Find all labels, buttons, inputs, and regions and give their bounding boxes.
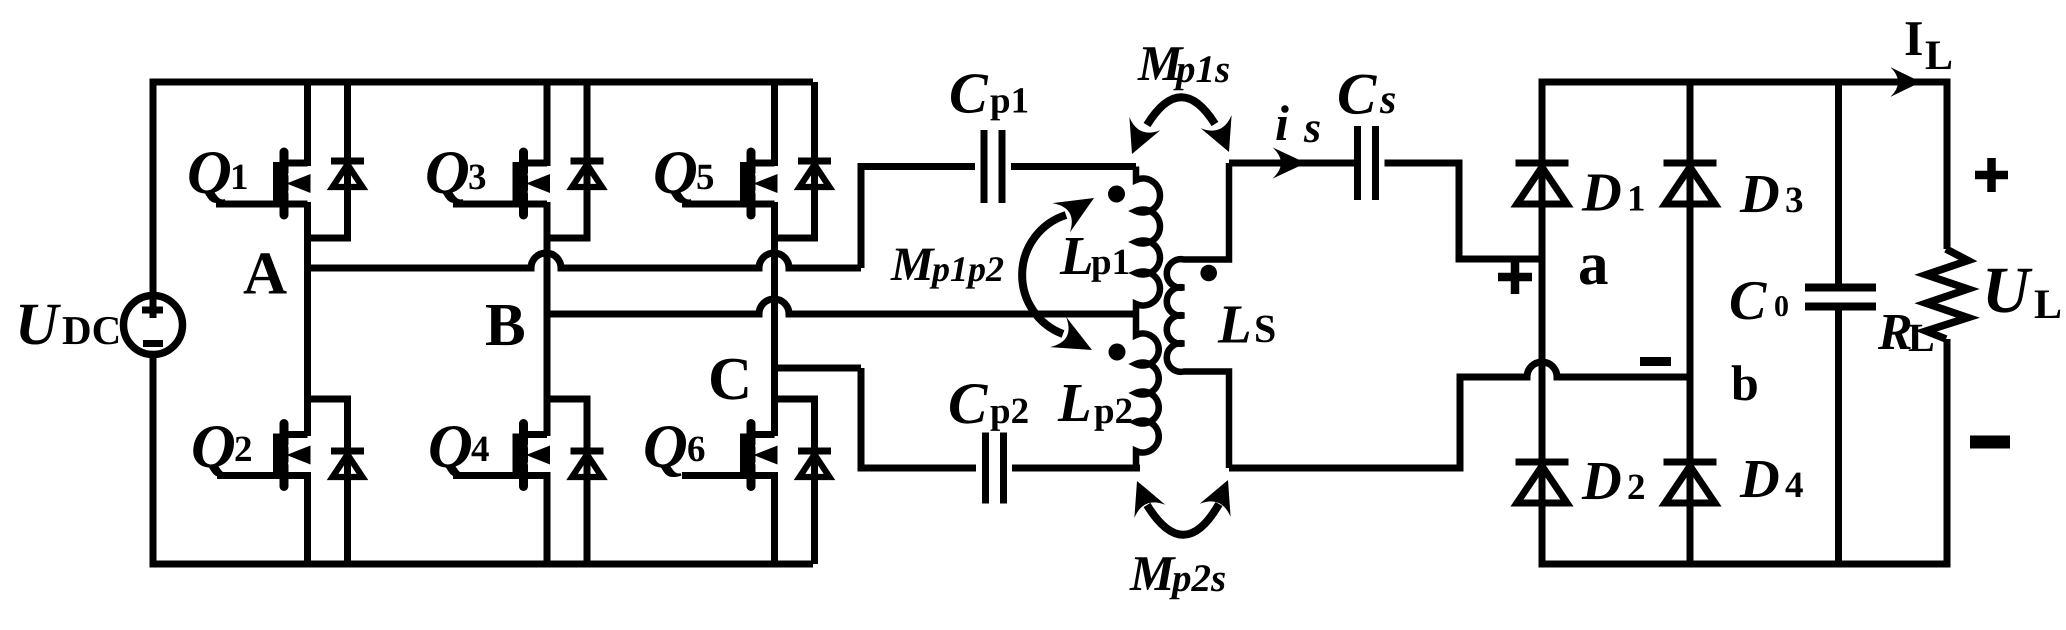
svg-text:L: L <box>1217 294 1252 355</box>
svg-text:Q: Q <box>653 139 698 207</box>
wire: DC bus left vertical (bottom half) <box>150 354 157 564</box>
current arrow is <box>1273 147 1307 178</box>
svg-text:C: C <box>708 346 752 413</box>
wire: source jumper Q3 <box>547 235 591 242</box>
capacitor Cp2 <box>986 433 1004 504</box>
svg-text:p1s: p1s <box>1173 48 1230 91</box>
svg-text:I: I <box>1904 10 1923 66</box>
svg-text:C: C <box>1729 270 1767 332</box>
wire: rectifier top rail <box>1539 79 1951 86</box>
inductor Lp1 <box>1108 167 1160 315</box>
label is <box>1275 95 1321 152</box>
svg-text:A: A <box>243 241 287 308</box>
svg-text:D: D <box>1581 162 1622 223</box>
node C wire <box>775 365 862 372</box>
wire: drain jumper Q2 <box>308 396 352 403</box>
svg-text:D: D <box>1581 450 1622 511</box>
svg-text:3: 3 <box>468 157 487 198</box>
svg-text:p2: p2 <box>990 391 1029 432</box>
label D1 <box>1581 162 1646 223</box>
svg-text:2: 2 <box>234 429 253 470</box>
label Q3 <box>425 139 487 207</box>
svg-text:6: 6 <box>687 429 706 470</box>
wire: rectifier bottom rail <box>1539 561 1951 568</box>
svg-text:L: L <box>1908 315 1935 360</box>
svg-text:DC: DC <box>62 307 121 353</box>
transistor Q3 <box>453 152 550 215</box>
label D4 <box>1739 448 1804 509</box>
wire: Cs to rectifier (node a) <box>1385 163 1546 259</box>
minus mark load <box>1970 436 2010 449</box>
wire: drain jumper Q4 <box>547 396 591 403</box>
minus mark node b <box>1640 357 1671 366</box>
current arrow IL <box>1890 67 1921 97</box>
diode D1 <box>1516 163 1569 204</box>
node A wire <box>308 253 862 268</box>
label node A <box>243 241 287 308</box>
plus mark node a <box>1498 260 1532 294</box>
svg-text:C: C <box>1337 61 1377 127</box>
svg-text:D: D <box>1739 448 1780 509</box>
label node B <box>485 292 526 359</box>
svg-text:0: 0 <box>1774 290 1789 323</box>
label C0 <box>1729 270 1789 332</box>
label Mp2s <box>1129 545 1226 601</box>
body diode of Q6 <box>798 399 831 564</box>
wire: rectifier left leg <box>1539 82 1546 564</box>
svg-text:B: B <box>485 292 526 359</box>
wire: Cp1 to Lp1 <box>1011 163 1136 170</box>
label Q6 <box>643 413 706 481</box>
svg-text:p1p2: p1p2 <box>929 249 1004 289</box>
svg-text:p2: p2 <box>1094 391 1133 432</box>
label D3 <box>1739 163 1804 224</box>
diode D2 <box>1516 462 1569 503</box>
svg-text:D: D <box>1739 163 1780 224</box>
label RL <box>1877 304 1935 361</box>
svg-text:U: U <box>15 291 61 357</box>
body diode of Q3 <box>571 82 604 238</box>
wire: secondary bottom (node b) <box>1229 362 1690 468</box>
svg-text:p1: p1 <box>1091 242 1130 283</box>
svg-text:L: L <box>1925 33 1953 79</box>
body diode of Q1 <box>331 82 364 238</box>
svg-text:s: s <box>1379 77 1396 123</box>
svg-text:C: C <box>948 370 988 436</box>
label Cp1 <box>949 61 1029 126</box>
svg-text:Q: Q <box>425 139 470 207</box>
svg-text:U: U <box>1982 254 2033 327</box>
node B wire <box>547 299 1136 314</box>
svg-text:i: i <box>1275 95 1289 151</box>
label Q5 <box>653 139 715 207</box>
diode D3 <box>1664 163 1717 204</box>
body diode of Q5 <box>798 82 831 238</box>
mutual inductance Mp1p2 arrow <box>1022 198 1094 350</box>
svg-text:M: M <box>890 238 936 291</box>
label UL <box>1982 254 2062 328</box>
svg-text:Q: Q <box>643 413 688 481</box>
svg-text:1: 1 <box>1627 179 1646 220</box>
svg-text:a: a <box>1578 231 1609 298</box>
wire: load branch top <box>1944 82 1951 249</box>
wire: source jumper Q1 <box>308 235 352 242</box>
svg-text:s: s <box>1303 103 1321 152</box>
wire: node C riser <box>861 368 976 468</box>
label Cs <box>1337 61 1396 127</box>
svg-text:5: 5 <box>696 157 715 198</box>
plus mark load <box>1975 158 2008 192</box>
label UDC <box>15 291 121 357</box>
wire: load branch bottom <box>1944 339 1951 564</box>
svg-text:Q: Q <box>187 139 232 207</box>
inductor Ls <box>1167 163 1229 468</box>
svg-text:p2s: p2s <box>1169 557 1226 600</box>
label Ls <box>1217 294 1276 355</box>
wire: DC bus left vertical (top half) <box>150 82 157 318</box>
wire: rectifier middle leg <box>1687 82 1694 564</box>
label Q2 <box>191 413 253 481</box>
wire: drain jumper Q6 <box>775 396 819 403</box>
wire: C0 branch top <box>1835 82 1842 284</box>
label IL <box>1904 10 1953 79</box>
label Lp1 <box>1059 225 1130 286</box>
body diode of Q2 <box>331 399 364 564</box>
label Q4 <box>428 413 490 481</box>
mutual inductance Mp2s arrow <box>1134 480 1230 535</box>
label Cp2 <box>948 370 1029 436</box>
label node b <box>1731 355 1759 411</box>
body diode of Q4 <box>571 399 604 564</box>
label D2 <box>1581 450 1646 511</box>
svg-text:p1: p1 <box>990 81 1029 122</box>
resistor RL <box>1926 249 1968 339</box>
inductor Lp2 <box>1109 314 1159 468</box>
wire: inverter leg A vertical <box>304 82 311 564</box>
svg-text:C: C <box>949 61 989 126</box>
transistor Q5 <box>682 152 778 215</box>
wire: Cp2 to Lp2 <box>1012 465 1140 472</box>
svg-text:4: 4 <box>1785 465 1804 506</box>
transistor Q4 <box>453 424 550 487</box>
svg-text:4: 4 <box>471 429 490 470</box>
capacitor C0 <box>1805 288 1876 307</box>
label Lp2 <box>1057 372 1133 433</box>
mutual inductance Mp1s arrow <box>1129 97 1231 154</box>
svg-text:Q: Q <box>191 413 236 481</box>
wire: inverter leg C vertical <box>771 82 778 564</box>
svg-text:b: b <box>1731 355 1759 411</box>
wire: inverter leg B vertical <box>544 82 551 564</box>
transistor Q1 <box>216 152 311 215</box>
svg-text:3: 3 <box>1785 180 1804 221</box>
transistor Q6 <box>682 424 778 487</box>
wire: node A riser <box>861 167 975 269</box>
svg-text:L: L <box>1059 225 1094 286</box>
capacitor Cs <box>1358 126 1376 200</box>
svg-text:L: L <box>1057 372 1092 433</box>
wire: secondary top <box>1229 160 1354 167</box>
label Mp1p2 <box>890 238 1004 291</box>
label node a <box>1578 231 1609 298</box>
svg-text:1: 1 <box>230 157 249 198</box>
transistor Q2 <box>217 424 311 487</box>
svg-text:S: S <box>1254 306 1276 351</box>
svg-text:L: L <box>2034 282 2062 328</box>
diode D4 <box>1664 462 1717 503</box>
svg-text:2: 2 <box>1627 467 1646 508</box>
wire: C0 branch bottom <box>1835 310 1842 564</box>
svg-text:Q: Q <box>428 413 473 481</box>
label Mp1s <box>1137 35 1230 91</box>
label node C <box>708 346 752 413</box>
label Q1 <box>187 139 249 207</box>
wire: bottom rail <box>150 561 814 568</box>
capacitor Cp1 <box>984 130 1002 203</box>
wire: top rail <box>150 79 814 86</box>
wire: source jumper Q5 <box>775 235 819 242</box>
svg-text:M: M <box>1129 545 1176 601</box>
voltage source UDC <box>124 296 183 355</box>
